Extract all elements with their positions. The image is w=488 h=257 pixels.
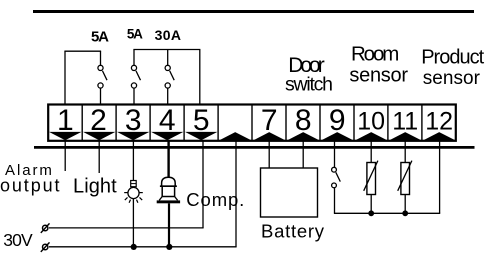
svg-text:Battery: Battery <box>261 221 325 242</box>
svg-text:Comp.: Comp. <box>186 189 244 210</box>
svg-text:30A: 30A <box>155 27 181 43</box>
svg-text:12: 12 <box>425 108 453 136</box>
svg-text:11: 11 <box>392 108 418 136</box>
svg-text:5A: 5A <box>127 27 143 42</box>
svg-text:8: 8 <box>295 104 312 137</box>
svg-text:7: 7 <box>261 104 278 137</box>
svg-text:Product: Product <box>421 47 484 69</box>
svg-text:5A: 5A <box>91 28 109 45</box>
svg-text:switch: switch <box>285 73 333 95</box>
svg-text:Room: Room <box>351 43 399 66</box>
svg-text:10: 10 <box>357 108 385 136</box>
svg-text:sensor: sensor <box>349 64 408 86</box>
svg-text:sensor: sensor <box>423 68 481 89</box>
svg-text:30V: 30V <box>3 230 33 250</box>
svg-text:output: output <box>0 176 60 196</box>
svg-text:9: 9 <box>329 104 346 137</box>
svg-text:Light: Light <box>73 176 117 198</box>
